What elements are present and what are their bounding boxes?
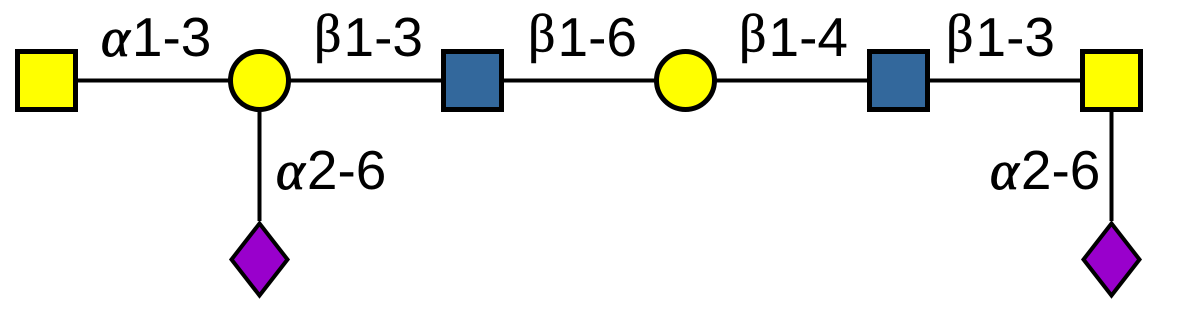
svg-text:β1-6: β1-6 bbox=[528, 4, 637, 69]
GlcNAc blue square 2 bbox=[870, 52, 928, 110]
wire vertical link circle1 to diamond1 bbox=[258, 81, 262, 222]
Neu5Ac purple diamond 1 bbox=[232, 224, 288, 296]
svg-text:β1-4: β1-4 bbox=[739, 4, 848, 69]
svg-text:α2-6: α2-6 bbox=[276, 139, 386, 201]
svg-text:β1-3: β1-3 bbox=[946, 4, 1055, 69]
svg-text:β1-3: β1-3 bbox=[314, 4, 423, 69]
Gal yellow circle 1 bbox=[231, 52, 289, 110]
GalNAc yellow square 2 bbox=[1083, 52, 1141, 110]
Gal yellow circle 2 bbox=[657, 52, 715, 110]
wire vertical link square6 to diamond2 bbox=[1110, 81, 1114, 222]
wire main horizontal backbone bbox=[47, 79, 1112, 83]
GlcNAc blue square 1 bbox=[444, 52, 502, 110]
GalNAc yellow square 1 bbox=[18, 52, 76, 110]
svg-text:α1-3: α1-3 bbox=[101, 6, 211, 68]
svg-text:α2-6: α2-6 bbox=[990, 139, 1100, 201]
Neu5Ac purple diamond 2 bbox=[1084, 224, 1140, 296]
